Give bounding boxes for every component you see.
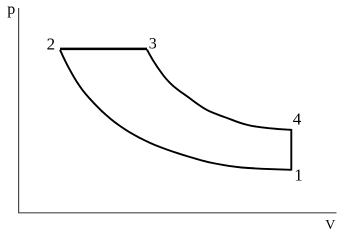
isochor line 4-1 <box>290 129 292 171</box>
svg-text:1: 1 <box>294 166 303 185</box>
svg-text:2: 2 <box>47 35 56 54</box>
adiabat curve 1-2 <box>60 50 291 170</box>
svg-text:3: 3 <box>149 36 157 53</box>
y-axis (p axis) <box>18 8 20 213</box>
svg-text:V: V <box>325 218 335 233</box>
x-axis (V axis) <box>18 212 337 214</box>
isobar line 2-3 <box>60 48 147 51</box>
adiabat curve 3-4 <box>147 50 291 130</box>
svg-text:4: 4 <box>293 110 302 129</box>
svg-text:p: p <box>7 1 15 18</box>
